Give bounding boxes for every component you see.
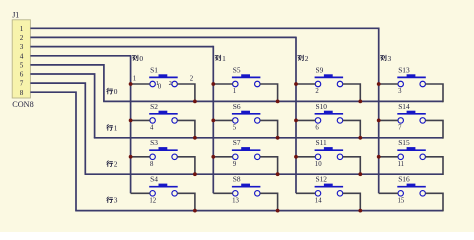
wire: column net 列0 vertical	[130, 55, 132, 193]
wire: pin 2 stub of S16 to 行3	[425, 193, 443, 211]
junction: 列1 with S pin row 0	[211, 82, 215, 86]
junction: 行0 with S1 drop	[193, 100, 197, 104]
switch S5	[232, 65, 261, 86]
svg-text:1: 1	[222, 54, 226, 63]
svg-text:15: 15	[398, 198, 405, 205]
svg-text:6: 6	[315, 125, 319, 132]
svg-text:10: 10	[315, 161, 322, 168]
svg-text:S10: S10	[316, 102, 328, 111]
wire: pin 1 stub of S15 to 列3	[379, 156, 398, 158]
switch S8	[232, 175, 261, 196]
junction: 行3 with S8 drop	[276, 209, 280, 213]
svg-text:13: 13	[232, 198, 239, 205]
svg-text:S2: S2	[150, 102, 158, 111]
svg-text:8: 8	[150, 161, 154, 168]
svg-text:7: 7	[20, 80, 24, 88]
svg-text:S7: S7	[233, 138, 241, 147]
wire: pin 1 stub of S16 to 列3	[379, 192, 398, 194]
svg-text:S12: S12	[316, 175, 328, 184]
wire: pin 2 stub of S5 to 行0	[260, 84, 278, 102]
key code label 4 of S2	[150, 125, 154, 132]
wire: row net 行3 horizontal	[75, 210, 443, 212]
svg-text:2: 2	[169, 80, 172, 87]
wire: pin 2 stub of S4 to 行3	[177, 193, 195, 211]
node 行2 label	[107, 160, 118, 169]
svg-text:3: 3	[388, 54, 392, 63]
svg-text:7: 7	[398, 125, 402, 132]
pin 2 of J1	[20, 34, 24, 42]
wire: pin 1 stub of S13 to 列3	[379, 83, 398, 85]
svg-text:11: 11	[398, 161, 405, 168]
key code label 8 of S3	[150, 161, 154, 168]
svg-text:14: 14	[315, 198, 322, 205]
svg-text:2: 2	[315, 88, 319, 95]
svg-text:6: 6	[20, 71, 24, 79]
key code label 1 of S5	[233, 88, 236, 95]
pin 3 of J1	[20, 43, 24, 51]
wire: J1 pin 3 to column net 列1	[30, 46, 213, 48]
node 行0 label	[107, 87, 118, 96]
switch S16	[397, 175, 426, 196]
wire: J1 pin 8 to row net 行3	[30, 92, 76, 210]
switch S6	[232, 102, 261, 123]
key code label 7 of S14	[398, 125, 402, 132]
key code label 14 of S12	[315, 198, 322, 205]
svg-text:S16: S16	[398, 175, 410, 184]
svg-text:J1: J1	[12, 11, 19, 20]
wire: pin 1 stub of S10 to 列2	[296, 119, 315, 121]
svg-text:2: 2	[114, 160, 118, 169]
svg-text:S3: S3	[150, 138, 158, 147]
wire: pin 2 stub of S15 to 行2	[425, 157, 443, 175]
svg-text:S11: S11	[316, 138, 328, 147]
junction: 列0 with S pin row 0	[129, 82, 133, 86]
junction: 行1 with S10 drop	[358, 136, 362, 140]
node 行1 label	[107, 123, 118, 132]
wire: J1 pin 1 to column net 列3	[30, 27, 378, 29]
svg-text:2: 2	[305, 54, 309, 63]
svg-text:0: 0	[114, 87, 118, 96]
wire: pin 2 stub of S3 to 行2	[177, 157, 195, 175]
svg-text:CON8: CON8	[12, 100, 33, 109]
junction: 行1 with S6 drop	[276, 136, 280, 140]
pin number 1 of S1 (outer)	[133, 76, 136, 83]
wire: pin 1 stub of S11 to 列2	[296, 156, 315, 158]
junction: 行3 with S4 drop	[193, 209, 197, 213]
svg-text:2: 2	[190, 75, 194, 82]
wire: row net 行0 horizontal	[103, 100, 443, 102]
switch S4	[149, 175, 178, 196]
svg-text:S15: S15	[398, 138, 410, 147]
svg-text:1: 1	[114, 123, 118, 132]
svg-text:S8: S8	[233, 175, 241, 184]
pin 8 of J1	[20, 89, 24, 97]
svg-text:4: 4	[20, 52, 24, 60]
wire: J1 pin 6 to row net 行1	[30, 74, 94, 138]
key code label 3 of S13	[398, 88, 402, 95]
junction: 列1 with S pin row 1	[211, 119, 215, 123]
svg-text:3: 3	[398, 88, 402, 95]
wire: J1 pin 5 to row net 行0	[30, 65, 104, 102]
junction: 行0 with S9 drop	[358, 100, 362, 104]
wire: column net 列1 vertical	[212, 46, 214, 194]
node 列1 label	[215, 54, 226, 63]
junction: 列0 with S pin row 1	[129, 119, 133, 123]
key code label 0 of S1	[158, 84, 162, 91]
svg-text:3: 3	[20, 43, 24, 51]
switch S2	[149, 102, 178, 123]
junction: 列3 with S pin row 1	[377, 119, 381, 123]
junction: 列1 with S pin row 2	[211, 155, 215, 159]
svg-text:4: 4	[150, 125, 154, 132]
junction: 行2 with S11 drop	[358, 172, 362, 176]
junction: 列3 with S pin row 2	[377, 155, 381, 159]
wire: pin 2 stub of S14 to 行1	[425, 120, 443, 138]
junction: 行0 with S5 drop	[276, 100, 280, 104]
key code label 6 of S10	[315, 125, 319, 132]
pin number 2 of S1 (inner)	[169, 80, 172, 87]
svg-text:1: 1	[156, 80, 159, 87]
wire: pin 1 stub of S9 to 列2	[296, 83, 315, 85]
value label CON8	[12, 100, 33, 109]
pin 1 of J1	[20, 25, 24, 33]
svg-text:3: 3	[114, 196, 118, 205]
key code label 11 of S15	[398, 161, 405, 168]
wire: J1 pin 2 to column net 列2	[30, 36, 296, 38]
wire: row net 行2 horizontal	[85, 173, 444, 175]
junction: 行3 with S12 drop	[358, 209, 362, 213]
switch S13	[397, 65, 426, 86]
wire: pin 2 stub of S13 to 行0	[425, 84, 443, 102]
switch S14	[397, 102, 426, 123]
key code label 10 of S11	[315, 161, 322, 168]
wire: column net 列2 vertical	[295, 37, 297, 194]
wire: pin 2 stub of S2 to 行1	[177, 120, 195, 138]
wire: pin 2 stub of S7 to 行2	[260, 157, 278, 175]
key code label 2 of S9	[315, 88, 319, 95]
key code label 5 of S6	[233, 125, 237, 132]
svg-text:9: 9	[233, 161, 237, 168]
designator J1	[12, 11, 19, 20]
node 列2 label	[298, 54, 309, 63]
switch S9	[315, 65, 344, 86]
node 行3 label	[107, 196, 118, 205]
pin 5 of J1	[20, 62, 24, 70]
switch S11	[315, 138, 344, 159]
pin 7 of J1	[20, 80, 24, 88]
svg-text:S5: S5	[233, 65, 241, 74]
svg-text:1: 1	[133, 76, 136, 83]
svg-text:1: 1	[233, 88, 236, 95]
wire: pin 2 stub of S12 to 行3	[343, 193, 361, 211]
svg-text:5: 5	[20, 62, 24, 70]
pin number 2 of S1 (outer)	[190, 75, 194, 82]
connector J1 body	[12, 20, 30, 98]
svg-text:S14: S14	[398, 102, 410, 111]
junction: 行2 with S7 drop	[276, 172, 280, 176]
svg-text:1: 1	[20, 25, 24, 33]
switch S3	[149, 138, 178, 159]
wire: J1 pin 7 to row net 行2	[30, 83, 85, 174]
pin 4 of J1	[20, 52, 24, 60]
wire: pin 1 stub of S14 to 列3	[379, 119, 398, 121]
wire: pin 1 stub of S5 to 列1	[213, 83, 232, 85]
wire: column net 列3 vertical	[378, 28, 380, 194]
wire: J1 pin 4 to column net 列0	[30, 55, 130, 57]
junction: 列2 with S pin row 1	[294, 119, 298, 123]
key code label 9 of S7	[233, 161, 237, 168]
svg-text:5: 5	[233, 125, 237, 132]
key code label 13 of S8	[232, 198, 239, 205]
wire: pin 2 stub of S11 to 行2	[343, 157, 361, 175]
junction: 列2 with S pin row 2	[294, 155, 298, 159]
wire: pin 2 stub of S10 to 行1	[343, 120, 361, 138]
junction: 列2 with S pin row 0	[294, 82, 298, 86]
switch S15	[397, 138, 426, 159]
junction: 行2 with S3 drop	[193, 172, 197, 176]
svg-text:S6: S6	[233, 102, 241, 111]
svg-text:S13: S13	[398, 65, 410, 74]
wire: pin 1 stub of S12 to 列2	[296, 192, 315, 194]
wire: pin 1 stub of S4 to 列0	[131, 192, 150, 194]
switch S1	[149, 65, 178, 86]
wire: pin 2 stub of S8 to 行3	[260, 193, 278, 211]
wire: pin 2 stub of S6 to 行1	[260, 120, 278, 138]
wire: pin 2 stub of S9 to 行0	[343, 84, 361, 102]
wire: row net 行1 horizontal	[94, 137, 443, 139]
wire: pin 1 stub of S2 to 列0	[131, 119, 150, 121]
junction: 行1 with S2 drop	[193, 136, 197, 140]
svg-text:S9: S9	[316, 65, 324, 74]
svg-text:2: 2	[20, 34, 24, 42]
wire: pin 1 stub of S1 to 列0	[131, 83, 150, 85]
svg-text:8: 8	[20, 89, 24, 97]
node 列3 label	[381, 54, 392, 63]
key code label 12 of S4	[149, 198, 156, 205]
switch S7	[232, 138, 261, 159]
wire: pin 1 stub of S7 to 列1	[213, 156, 232, 158]
pin 6 of J1	[20, 71, 24, 79]
svg-text:12: 12	[149, 198, 156, 205]
svg-text:0: 0	[139, 54, 143, 63]
wire: pin 1 stub of S6 to 列1	[213, 119, 232, 121]
wire: pin 1 stub of S8 to 列1	[213, 192, 232, 194]
svg-text:S1: S1	[150, 65, 158, 74]
switch S12	[315, 175, 344, 196]
wire: pin 1 stub of S3 to 列0	[131, 156, 150, 158]
svg-text:S4: S4	[150, 175, 158, 184]
junction: 列3 with S pin row 0	[377, 82, 381, 86]
junction: 列0 with S pin row 2	[129, 155, 133, 159]
key code label 15 of S16	[398, 198, 405, 205]
switch S10	[315, 102, 344, 123]
node 列0 label	[132, 54, 143, 63]
pin number 1 of S1 (inner)	[156, 80, 159, 87]
wire: pin 2 stub of S1 to 行0	[177, 84, 195, 102]
